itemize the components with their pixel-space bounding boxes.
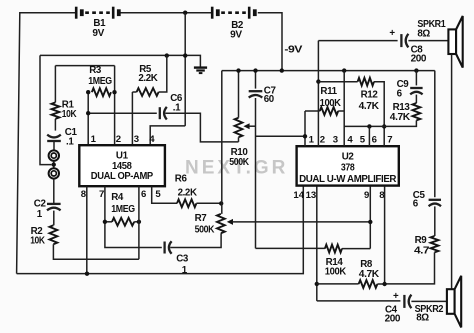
- node: R10 / rail: [236, 68, 240, 72]
- amplifier U2 (378 dual u-w amplifier): [297, 146, 399, 185]
- node: pin7 junction: [382, 124, 386, 128]
- node: battery midpoint junction: [183, 11, 187, 15]
- wire: U1 pin 8 to ground rail: [86, 186, 88, 273]
- input jack J1: [49, 150, 59, 160]
- node: R3 right / pin2: [112, 90, 116, 94]
- resistor R11: [320, 107, 338, 115]
- svg-text:4.7K: 4.7K: [359, 269, 379, 280]
- wire: R14 right lead: [342, 248, 370, 250]
- wire: branch to U2 pin 1: [256, 135, 306, 137]
- svg-text:100K: 100K: [325, 266, 346, 277]
- wire: -9V supply rail: [222, 70, 435, 72]
- wire: R4 right lead: [134, 221, 139, 223]
- node: C7 / rail: [253, 68, 257, 72]
- svg-text:6: 6: [372, 134, 377, 145]
- wire: C8 to SPKR1: [408, 40, 448, 42]
- svg-text:R4: R4: [111, 192, 124, 203]
- capacitor C5: [429, 200, 441, 206]
- input jack J2: [49, 168, 59, 178]
- capacitor C2: [47, 204, 61, 210]
- resistor R4: [112, 218, 134, 226]
- svg-text:5: 5: [155, 189, 161, 200]
- svg-text:9: 9: [364, 190, 369, 201]
- wire: C7 down through wiper to R14 corner: [255, 98, 257, 248]
- wire: U1 pin 7 down to C3: [105, 186, 162, 247]
- wire: top-left feed from B1 down left side to ground rail: [17, 13, 76, 274]
- U1 pin numbers bottom: [81, 189, 162, 200]
- svg-text:4.7: 4.7: [414, 245, 430, 256]
- svg-text:.1: .1: [173, 102, 181, 113]
- svg-text:7: 7: [387, 134, 392, 145]
- svg-text:4: 4: [347, 134, 353, 145]
- resistor R2: [50, 225, 58, 244]
- wire: R11 left lead: [305, 110, 320, 112]
- wire: R9 bottom to R8/pin8 junction: [385, 252, 435, 284]
- wire: U2 pin 9 down to R14: [369, 186, 371, 248]
- capacitor C4: [404, 295, 411, 309]
- capacitor C7: [249, 91, 263, 97]
- node: R4 / pin6: [137, 220, 141, 224]
- svg-text:C3: C3: [176, 254, 189, 265]
- wire: R5 right lead up to bus: [159, 56, 167, 92]
- svg-text:4.7K: 4.7K: [359, 101, 379, 112]
- svg-text:500K: 500K: [229, 157, 249, 168]
- node: pin1 / C7 branch: [303, 134, 307, 138]
- wire: U2 pin 6 lead: [368, 126, 370, 146]
- wire: C3 to R7 bottom: [170, 233, 221, 247]
- wire: R11 right lead: [338, 110, 344, 112]
- svg-text:60: 60: [264, 94, 275, 105]
- resistor R1: [52, 102, 60, 118]
- wire: rail to C9: [415, 71, 417, 86]
- node: pin4 feed / rail: [342, 68, 346, 72]
- wire: U1 pin 2 lead up through R3 to top link: [114, 66, 116, 145]
- potentiometer R7 500K: [217, 214, 233, 233]
- battery B1: [76, 7, 119, 39]
- wire: between jacks: [53, 161, 55, 168]
- node: pin9 / wiper line: [368, 220, 372, 224]
- node: pin8 / rail junction: [85, 272, 89, 276]
- wire: U1 pin 5 to R6: [152, 186, 177, 203]
- resistor R8: [359, 280, 378, 288]
- capacitor C9: [410, 88, 422, 94]
- svg-text:10K: 10K: [62, 109, 77, 120]
- svg-text:1MEG: 1MEG: [88, 76, 112, 87]
- wire: bottom ground rail up to U2 pin 14: [17, 186, 304, 273]
- node: pin2 / R12: [316, 79, 320, 83]
- svg-text:100K: 100K: [320, 98, 341, 109]
- resistor R6: [177, 199, 196, 207]
- wire: U1 pin 1 lead up to R3: [87, 92, 89, 144]
- speaker SPKR2: [447, 276, 461, 328]
- svg-text:+: +: [393, 291, 399, 302]
- svg-text:.1: .1: [66, 137, 74, 148]
- wire: battery junction down to pin-4 jog: [184, 13, 186, 126]
- svg-text:-9V: -9V: [284, 44, 303, 55]
- wire: B2 to -9V rail corner: [258, 13, 282, 70]
- svg-text:R7: R7: [195, 213, 208, 224]
- svg-text:5: 5: [360, 134, 366, 145]
- op-amp U1 (1458 dual op-amp): [79, 145, 165, 186]
- resistor R5: [137, 88, 159, 96]
- svg-text:R6: R6: [175, 173, 188, 184]
- wire: rail corner down to C5: [434, 71, 436, 198]
- wire: R8 right lead: [377, 283, 384, 285]
- svg-text:3: 3: [333, 134, 338, 145]
- resistor R9: [431, 236, 439, 252]
- node: pin 1 junction: [86, 111, 90, 115]
- node: pin6 junction: [367, 124, 371, 128]
- capacitor C6: [160, 107, 167, 120]
- wire: C9 to R13: [415, 95, 417, 103]
- svg-text:R12: R12: [361, 89, 379, 100]
- U2 pin numbers top: [309, 134, 393, 145]
- wire: to R14 left lead: [256, 247, 325, 249]
- wire: pin13 line to C4: [317, 300, 401, 302]
- wire: R12 right lead down to U2 pin 7: [374, 82, 384, 147]
- wire: R6 right lead: [196, 202, 221, 204]
- wire: upper horizontal bus to ground stem: [40, 55, 200, 66]
- svg-text:200: 200: [411, 54, 427, 65]
- wire: B1 to B2: [120, 12, 211, 14]
- wire: R10 bottom lead: [238, 137, 240, 142]
- speaker SPKR1: [448, 16, 462, 68]
- svg-text:1MEG: 1MEG: [111, 204, 135, 215]
- svg-text:500K: 500K: [195, 224, 215, 235]
- wire: R2 bottom to U1 pin 6 drop: [53, 244, 138, 259]
- wire: C4 to SPKR2: [411, 300, 447, 302]
- capacitor C3: [165, 241, 172, 254]
- svg-text:1: 1: [91, 134, 97, 145]
- node: jack junction: [52, 162, 56, 166]
- resistor R3: [92, 88, 111, 96]
- wire: R3 feedback top link: [55, 65, 114, 67]
- node: pin8 / R9 junction: [382, 282, 386, 286]
- svg-text:R11: R11: [320, 86, 337, 97]
- wire: C6 to R10 bottom jog: [165, 113, 238, 142]
- svg-text:2: 2: [116, 134, 121, 145]
- node: C9 / rail: [414, 68, 418, 72]
- svg-text:DUAL U-W AMPLIFIER: DUAL U-W AMPLIFIER: [299, 174, 396, 185]
- svg-text:6: 6: [141, 189, 146, 200]
- wire: R1 to C1: [54, 119, 56, 131]
- wire: rail to C7: [255, 71, 257, 89]
- potentiometer R10 500K: [235, 118, 250, 138]
- capacitor C8: [401, 34, 408, 48]
- node: battery vertical crossing junction: [183, 53, 187, 57]
- capacitor C1: [47, 135, 61, 141]
- wire: U2 pin 2 output lead: [317, 41, 319, 147]
- node: R5 top junction: [165, 53, 169, 57]
- node: R3 left / pin1: [86, 90, 90, 94]
- svg-text:DUAL OP-AMP: DUAL OP-AMP: [91, 171, 154, 182]
- wire: R8 left lead: [317, 283, 359, 285]
- svg-text:7: 7: [99, 189, 104, 200]
- wire: speaker return line right side: [451, 54, 453, 289]
- node: R6 / R7 junction: [219, 201, 223, 205]
- svg-text:+: +: [389, 28, 395, 39]
- wire: R4 left lead: [105, 221, 112, 223]
- svg-text:9V: 9V: [230, 29, 242, 40]
- svg-text:4: 4: [149, 134, 155, 145]
- wire: U2 pin 13 down to C4 line: [316, 186, 318, 301]
- node: B2 / rail: [280, 68, 284, 72]
- wire: R5 left lead: [132, 91, 136, 93]
- wire: C5 to R9: [434, 206, 436, 236]
- wire: C1 to jack: [53, 141, 55, 150]
- svg-text:C2: C2: [34, 198, 47, 209]
- U1 pin numbers top: [91, 134, 156, 145]
- wire: output line to C8: [318, 40, 397, 42]
- wire: jack to C2: [53, 179, 55, 204]
- svg-text:8Ω: 8Ω: [416, 312, 429, 323]
- svg-text:8Ω: 8Ω: [417, 29, 430, 40]
- wire: left inner vertical to input jack junction: [40, 55, 51, 164]
- wire: bias line to R13 bottom: [344, 120, 416, 126]
- svg-text:4.7K: 4.7K: [390, 112, 410, 123]
- svg-text:U1: U1: [116, 150, 129, 161]
- ground: [194, 68, 207, 74]
- svg-text:R3: R3: [89, 65, 102, 76]
- svg-text:9V: 9V: [92, 28, 104, 39]
- wire: U1 pin 3 lead: [131, 92, 133, 145]
- resistor R13: [413, 103, 421, 120]
- wire: U1 pin 6 drop: [138, 186, 140, 259]
- svg-text:13: 13: [306, 190, 317, 201]
- U2 pin numbers bottom: [293, 190, 385, 201]
- wire: R12 left lead: [318, 81, 357, 83]
- wire: rail to U2 pin 4: [343, 71, 345, 147]
- svg-text:U2: U2: [342, 151, 355, 162]
- resistor R12: [358, 78, 374, 86]
- svg-text:14: 14: [293, 190, 304, 201]
- resistor R14: [325, 245, 342, 253]
- wire: jog into U1 pin 4: [150, 126, 185, 145]
- wire: rail to R10 top: [238, 71, 240, 118]
- wire: -9V rail left end down to R7: [221, 71, 223, 214]
- wire: R10 wiper tap to C7 line: [249, 125, 255, 127]
- wire: U2 pin 1 lead up to R11: [304, 111, 306, 146]
- svg-text:8: 8: [81, 189, 87, 200]
- svg-text:2.2K: 2.2K: [138, 73, 157, 84]
- wire: U2 pin 8 drop: [384, 186, 386, 284]
- node: pin13 / R8: [315, 282, 319, 286]
- wire: R7 wiper to U2 pin 9: [232, 221, 370, 223]
- wire: C2 to R2: [53, 211, 55, 226]
- wire: pin1 junction to C6: [88, 112, 157, 114]
- node: R4 / pin7: [103, 220, 107, 224]
- battery B2: [212, 7, 255, 41]
- svg-text:378: 378: [341, 163, 355, 174]
- svg-text:2.2K: 2.2K: [178, 188, 197, 199]
- svg-text:1: 1: [309, 134, 315, 145]
- wire: down to R1: [54, 66, 56, 103]
- svg-text:2: 2: [320, 134, 325, 145]
- svg-text:200: 200: [385, 313, 401, 324]
- svg-text:10K: 10K: [30, 236, 45, 247]
- svg-text:3: 3: [134, 134, 139, 145]
